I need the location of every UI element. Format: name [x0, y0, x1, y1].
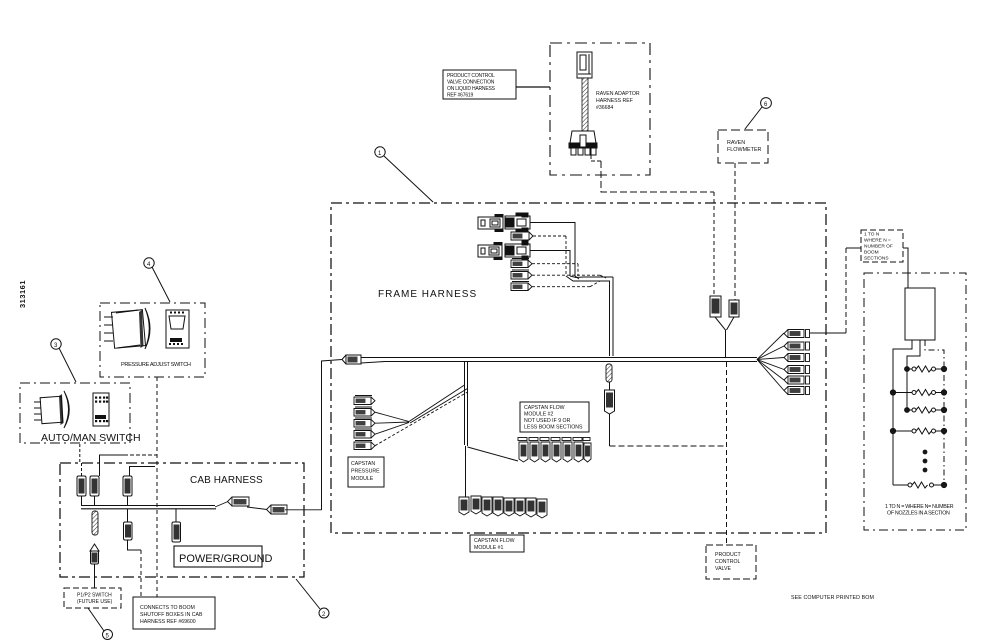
cab tag 1	[215, 497, 249, 507]
tag c	[511, 270, 606, 279]
tag d	[511, 281, 600, 291]
capstan pressure module box	[348, 457, 384, 487]
callout circle 5	[88, 608, 113, 640]
raven flowmeter box	[718, 130, 768, 163]
callout circle 6	[745, 98, 771, 129]
bus drop capsule	[606, 364, 612, 382]
svg-text:BOOM: BOOM	[864, 250, 879, 256]
raven flowmeter label	[727, 140, 762, 153]
auto/man switch box	[20, 383, 130, 443]
riser from bus to lower rows	[465, 362, 468, 497]
power/ground box	[174, 546, 273, 567]
svg-text:REF #67619: REF #67619	[447, 93, 473, 99]
harness pipe horizontal	[583, 277, 613, 281]
auto/man switch label	[41, 432, 141, 444]
svg-text:1: 1	[378, 151, 382, 157]
shutoff boxes note	[133, 597, 215, 629]
svg-text:5: 5	[106, 634, 110, 640]
pressure switch rocker icon	[104, 308, 150, 349]
left fan tag 1	[354, 396, 375, 405]
wire connector down and right to product valve drop	[610, 414, 727, 446]
svg-text:NOT USED IF 9 OR: NOT USED IF 9 OR	[524, 418, 571, 424]
svg-text:(FUTURE USE): (FUTURE USE)	[77, 599, 113, 605]
cab connector C	[123, 476, 132, 505]
svg-text:HARNESS REF: HARNESS REF	[596, 98, 633, 104]
svg-text:LESS BOOM SECTIONS: LESS BOOM SECTIONS	[524, 425, 583, 431]
svg-text:PRODUCT: PRODUCT	[715, 552, 741, 558]
svg-text:3: 3	[54, 343, 58, 349]
bom note text	[791, 595, 874, 601]
svg-text:4: 4	[147, 262, 151, 268]
auto/man rocker icon	[34, 391, 69, 428]
adaptor bottom connector	[569, 131, 597, 155]
tag b	[511, 259, 578, 277]
cab ground lug	[90, 544, 99, 588]
svg-text:PRODUCT CONTROL: PRODUCT CONTROL	[447, 73, 495, 79]
bundle merge diagonals	[566, 276, 583, 281]
sheet number text 313161	[18, 280, 27, 308]
svg-text:VALVE: VALVE	[715, 566, 731, 572]
svg-text:1 TO N: 1 TO N	[864, 232, 880, 238]
harness pipe vertical	[610, 277, 614, 356]
svg-text:ON LIQUID HARNESS: ON LIQUID HARNESS	[447, 86, 496, 92]
svg-text:CAPSTAN FLOW: CAPSTAN FLOW	[474, 538, 515, 544]
pressure adjust switch box	[100, 303, 205, 377]
callout circle 2	[296, 579, 329, 618]
svg-text:HARNESS REF #69600: HARNESS REF #69600	[140, 619, 196, 625]
svg-text:CONTROL: CONTROL	[715, 559, 740, 565]
wire top fan tag to boom note	[810, 248, 861, 333]
callout circle 1	[375, 147, 433, 202]
cab tag 2	[247, 505, 322, 514]
module2 connector row	[518, 438, 591, 463]
nozzle rung 3	[905, 407, 947, 413]
svg-text:WHERE N =: WHERE N =	[864, 238, 891, 244]
frame harness enclosure box	[331, 203, 826, 533]
svg-text:AUTO/MAN SWITCH: AUTO/MAN SWITCH	[41, 432, 141, 444]
svg-text:NUMBER OF: NUMBER OF	[864, 244, 893, 250]
wire auto/man box to connector A	[79, 444, 81, 463]
wire boom note to nozzle module	[903, 248, 908, 288]
frame connector Q	[729, 300, 739, 317]
svg-text:SECTIONS: SECTIONS	[864, 256, 889, 262]
svg-text:PRESSURE ADJUST SWITCH: PRESSURE ADJUST SWITCH	[121, 362, 191, 368]
svg-text:CAPSTAN: CAPSTAN	[351, 461, 375, 467]
svg-text:RAVEN ADAPTOR: RAVEN ADAPTOR	[596, 91, 640, 97]
cab bus double line	[81, 506, 216, 509]
wire row1 to bundle	[530, 223, 575, 277]
cab connector A	[77, 463, 86, 505]
wire row2 to bundle	[530, 251, 570, 277]
nozzle rung 5	[893, 482, 947, 488]
nozzle rung 1	[905, 366, 947, 372]
svg-text:PRESSURE: PRESSURE	[351, 469, 380, 475]
adaptor cable	[582, 78, 588, 131]
fan tag r1	[784, 330, 810, 338]
svg-text:SHUTOFF BOXES IN CAB: SHUTOFF BOXES IN CAB	[140, 612, 203, 618]
auto/man connector icon	[93, 393, 109, 426]
svg-text:FRAME HARNESS: FRAME HARNESS	[378, 289, 477, 300]
adaptor top connector	[577, 52, 592, 78]
wire bus tag to cab riser	[322, 360, 343, 511]
connector pair row1 left	[478, 215, 503, 232]
nozzle rung 4	[890, 428, 946, 434]
raven adaptor label	[596, 91, 640, 111]
ellipsis dots	[923, 450, 928, 473]
capstan flow module 2 box	[520, 402, 589, 432]
left fan tag 4	[354, 423, 409, 439]
left fan tag 3	[354, 418, 409, 427]
long drop pressure box to shutoff note	[156, 377, 158, 597]
p1/p2 switch note box	[64, 588, 121, 608]
svg-text:MODULE #1: MODULE #1	[474, 545, 504, 551]
cab connector E	[172, 509, 181, 542]
connector pair row2 left	[478, 243, 502, 260]
cab capsule	[92, 511, 98, 535]
svg-text:VALVE CONNECTION: VALVE CONNECTION	[447, 80, 495, 86]
svg-text:POWER/GROUND: POWER/GROUND	[179, 553, 273, 565]
svg-text:313161: 313161	[18, 280, 27, 308]
frame harness label	[378, 289, 477, 300]
nozzle section enclosure box	[864, 273, 966, 530]
frame connector P	[710, 296, 721, 317]
wire adaptor to frame connector	[591, 155, 714, 296]
connector pair row1 right	[505, 213, 530, 232]
nozzles note text	[885, 504, 954, 517]
main bus double line	[361, 358, 757, 364]
left fan tag 2	[354, 407, 409, 422]
callout circle 3	[51, 339, 76, 382]
svg-text:#36684: #36684	[596, 105, 613, 111]
wires P Q merge to bus	[715, 317, 734, 357]
fan tag r3	[784, 354, 810, 362]
bus left tag	[342, 355, 361, 364]
fan merge diagonals to riser	[409, 385, 468, 423]
cab harness enclosure box	[60, 463, 304, 577]
svg-text:6: 6	[764, 102, 768, 108]
svg-text:FLOWMETER: FLOWMETER	[727, 147, 762, 153]
connector pair row2 right	[505, 241, 530, 260]
product control valve connection note box	[443, 70, 516, 99]
svg-text:2: 2	[322, 612, 326, 618]
fan tag r2	[784, 342, 810, 350]
nozzle module rect	[905, 288, 935, 340]
drop to product control valve	[726, 362, 728, 545]
cab connector D	[124, 509, 142, 597]
module1 connector row	[459, 496, 547, 518]
svg-text:P1/P2 SWITCH: P1/P2 SWITCH	[77, 593, 112, 599]
ladder feed wires	[893, 340, 944, 485]
wire note box to adaptor box	[516, 86, 550, 88]
bus drop connector	[605, 382, 615, 414]
wire pressure switch to connector B	[100, 455, 158, 476]
cab connector B	[90, 476, 99, 505]
pressure switch connector icon	[166, 310, 189, 348]
left fan tag 5	[354, 392, 468, 450]
pressure adjust switch label	[121, 362, 191, 368]
svg-text:CAPSTAN FLOW: CAPSTAN FLOW	[524, 405, 565, 411]
svg-text:MODULE: MODULE	[351, 476, 374, 482]
capstan flow module 1 box	[470, 535, 524, 552]
svg-text:OF NOZZLES IN A SECTION: OF NOZZLES IN A SECTION	[887, 511, 950, 517]
wire flowmeter to frame connector	[734, 163, 736, 300]
fan tag r5	[784, 376, 810, 384]
tag a	[511, 232, 566, 276]
svg-text:SEE COMPUTER PRINTED BOM: SEE COMPUTER PRINTED BOM	[791, 595, 874, 601]
callout circle 4	[144, 258, 170, 302]
svg-text:RAVEN: RAVEN	[727, 140, 745, 146]
svg-text:1 TO N = WHERE N= NUMBER: 1 TO N = WHERE N= NUMBER	[885, 504, 954, 510]
product control valve box	[706, 545, 756, 579]
nozzle rung 2	[890, 390, 946, 396]
raven adaptor harness box	[550, 43, 650, 175]
bus right fan tags	[757, 333, 784, 391]
svg-text:CONNECTS TO BOOM: CONNECTS TO BOOM	[140, 605, 195, 611]
svg-text:CAB HARNESS: CAB HARNESS	[190, 475, 263, 486]
fan tag r4	[784, 366, 810, 374]
boom sections note box	[861, 230, 903, 262]
wire connector C to shutoff drop	[130, 467, 156, 477]
diagonal riser to module2 row	[468, 447, 519, 461]
fan tag r6	[784, 387, 810, 395]
cab harness label	[190, 475, 263, 486]
svg-text:MODULE #2: MODULE #2	[524, 412, 554, 418]
